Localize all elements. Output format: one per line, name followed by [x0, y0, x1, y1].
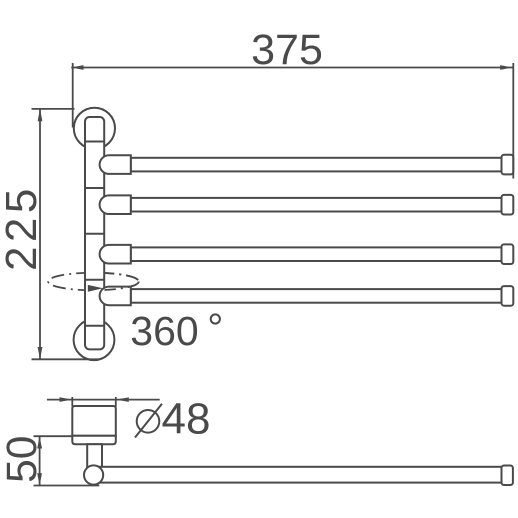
svg-text:225: 225	[0, 184, 46, 271]
arm end cap 3	[502, 244, 514, 264]
side view swivel ball	[84, 465, 103, 484]
rotation ellipse overlay right of post	[48, 273, 139, 291]
dim d48 line	[47, 399, 160, 401]
dim 375 right extension line	[512, 63, 514, 179]
svg-text:375: 375	[251, 26, 323, 74]
svg-text:48: 48	[162, 395, 211, 444]
bottom wall-mount circle	[74, 319, 115, 360]
dim 225 line	[39, 109, 41, 359]
dim d48 right extension line	[115, 397, 117, 407]
dim 375 line	[71, 67, 512, 69]
dim d48 left extension line	[71, 397, 73, 407]
arm bar 4	[131, 289, 502, 303]
dim 375 left extension line	[72, 63, 74, 128]
side view stem	[87, 444, 102, 470]
side view flange cup	[72, 406, 116, 436]
dim 225 bottom extension line	[32, 358, 100, 360]
svg-text:50: 50	[0, 436, 46, 483]
post joint line 1	[85, 141, 104, 143]
diameter symbol slash	[135, 404, 162, 438]
arm end cap 2	[502, 195, 514, 215]
diameter symbol circle	[137, 410, 160, 433]
svg-text:360: 360	[130, 308, 198, 354]
wall post body	[85, 117, 104, 349]
dim d48 left arrow	[60, 397, 73, 402]
arm bar 1	[131, 158, 502, 172]
post joint line 2	[85, 187, 104, 189]
dim 225 top extension line	[32, 108, 75, 110]
arm hinge 3	[100, 245, 131, 264]
rotation ellipse (under post)	[48, 273, 139, 291]
post joint line 5	[85, 325, 104, 327]
post joint line 4	[85, 279, 104, 281]
side view end cap	[502, 466, 513, 486]
arm hinge 1	[100, 155, 131, 174]
dim 50 bottom extension line	[34, 485, 100, 487]
post joint line 3	[85, 233, 104, 235]
dim 225 top arrow	[38, 109, 43, 121]
arm bar 2	[131, 198, 502, 212]
arm end cap 1	[502, 155, 514, 175]
rotation arrowhead	[88, 285, 103, 292]
arm bar 3	[131, 247, 502, 261]
degree symbol circle	[211, 314, 220, 323]
dim 50 bottom arrow	[37, 473, 42, 485]
dim 375 right arrow	[500, 65, 512, 70]
dim 50 top extension line	[34, 435, 73, 437]
arm end cap 4	[502, 286, 514, 306]
side view flange rim	[72, 436, 116, 445]
side view bar	[95, 467, 502, 483]
arm hinge 2	[100, 195, 131, 214]
dim 225 bottom arrow	[38, 347, 43, 359]
dim 50 top arrow	[37, 436, 42, 448]
dim 375 left arrow	[71, 65, 83, 70]
top wall-mount circle	[74, 108, 115, 149]
dim 50 line	[39, 436, 41, 485]
arm hinge 4	[100, 287, 131, 306]
dim d48 right arrow	[116, 397, 129, 402]
